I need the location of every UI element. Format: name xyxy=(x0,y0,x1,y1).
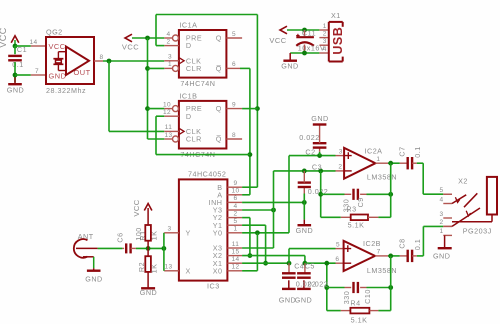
svg-text:1: 1 xyxy=(233,226,237,233)
svg-text:LM358N: LM358N xyxy=(367,266,397,275)
svg-text:C3: C3 xyxy=(312,162,322,171)
svg-text:7: 7 xyxy=(377,249,381,256)
svg-text:VCC: VCC xyxy=(122,43,139,52)
svg-text:Q: Q xyxy=(216,104,222,113)
svg-text:R4: R4 xyxy=(350,299,360,308)
svg-text:0.1: 0.1 xyxy=(12,60,24,69)
svg-text:2: 2 xyxy=(323,30,327,37)
svg-text:Q̅: Q̅ xyxy=(216,64,222,73)
svg-text:8: 8 xyxy=(232,132,236,139)
svg-text:6: 6 xyxy=(335,256,339,263)
svg-text:GND: GND xyxy=(433,252,450,261)
svg-text:X1: X1 xyxy=(331,11,341,20)
svg-text:GND: GND xyxy=(296,226,313,235)
svg-text:VCC: VCC xyxy=(269,36,286,45)
svg-text:1K: 1K xyxy=(149,264,158,274)
svg-text:5: 5 xyxy=(336,241,340,248)
svg-text:11: 11 xyxy=(232,241,240,248)
svg-text:VCC: VCC xyxy=(49,42,66,51)
svg-text:3: 3 xyxy=(167,226,171,233)
svg-text:2: 2 xyxy=(166,38,170,45)
svg-text:GND: GND xyxy=(49,71,67,80)
svg-text:D: D xyxy=(186,112,192,121)
svg-text:4: 4 xyxy=(233,203,237,210)
svg-text:4: 4 xyxy=(439,196,443,203)
svg-text:C2: C2 xyxy=(305,147,315,156)
svg-text:13: 13 xyxy=(164,264,172,271)
svg-text:15: 15 xyxy=(231,248,239,255)
svg-text:14: 14 xyxy=(231,256,239,263)
svg-text:Y: Y xyxy=(186,228,191,237)
svg-text:5: 5 xyxy=(232,31,236,38)
svg-text:2: 2 xyxy=(439,219,443,226)
svg-text:9: 9 xyxy=(232,101,236,108)
svg-text:12: 12 xyxy=(163,109,171,116)
svg-text:C7: C7 xyxy=(397,146,406,156)
svg-text:0.022: 0.022 xyxy=(299,133,320,142)
svg-text:12: 12 xyxy=(231,264,239,271)
svg-text:GND: GND xyxy=(85,274,102,283)
svg-text:10: 10 xyxy=(231,188,239,195)
svg-text:GND: GND xyxy=(279,296,296,305)
svg-text:74HC74N: 74HC74N xyxy=(180,79,215,88)
svg-text:LM358N: LM358N xyxy=(367,172,397,181)
svg-text:3: 3 xyxy=(339,148,343,155)
svg-text:IC2A: IC2A xyxy=(365,146,383,155)
svg-text:C5: C5 xyxy=(305,261,315,270)
svg-text:C4: C4 xyxy=(294,261,304,270)
svg-text:X0: X0 xyxy=(213,266,223,275)
svg-text:4: 4 xyxy=(166,31,170,38)
svg-text:5.1K: 5.1K xyxy=(348,221,365,230)
svg-text:4: 4 xyxy=(323,46,327,53)
svg-text:1: 1 xyxy=(323,23,327,30)
svg-text:CLR: CLR xyxy=(186,135,202,144)
svg-text:GND: GND xyxy=(295,296,312,305)
svg-text:5: 5 xyxy=(439,187,443,194)
svg-text:14: 14 xyxy=(29,39,37,46)
svg-text:Y0: Y0 xyxy=(213,228,223,237)
svg-text:IC3: IC3 xyxy=(207,282,220,291)
svg-text:9: 9 xyxy=(233,180,237,187)
svg-text:USB: USB xyxy=(331,27,345,55)
svg-text:R3: R3 xyxy=(346,204,356,213)
svg-text:VCC: VCC xyxy=(0,27,8,48)
svg-text:3: 3 xyxy=(323,38,327,45)
svg-text:GND: GND xyxy=(281,61,298,70)
svg-text:C10: C10 xyxy=(363,289,372,304)
svg-text:10: 10 xyxy=(163,101,171,108)
svg-text:74HC4052: 74HC4052 xyxy=(188,169,226,178)
svg-text:X: X xyxy=(186,266,191,275)
svg-text:0.1: 0.1 xyxy=(413,239,422,251)
svg-text:13: 13 xyxy=(164,132,172,139)
svg-text:2: 2 xyxy=(338,164,342,171)
svg-text:IC1A: IC1A xyxy=(179,21,197,30)
svg-text:C9: C9 xyxy=(356,197,365,207)
svg-text:0.022: 0.022 xyxy=(308,279,329,288)
svg-text:1: 1 xyxy=(376,156,380,163)
svg-text:VCC: VCC xyxy=(132,199,141,216)
svg-text:C11: C11 xyxy=(302,29,316,38)
svg-text:CLR: CLR xyxy=(186,64,202,73)
svg-text:QG2: QG2 xyxy=(46,28,63,37)
svg-text:28.322Mhz: 28.322Mhz xyxy=(46,86,86,95)
svg-text:IC2B: IC2B xyxy=(363,239,381,248)
svg-text:6: 6 xyxy=(233,195,237,202)
svg-text:Q̅: Q̅ xyxy=(216,135,222,144)
svg-text:GND: GND xyxy=(311,114,328,123)
svg-text:1: 1 xyxy=(439,228,443,235)
svg-text:R2: R2 xyxy=(137,262,146,272)
svg-text:IC1B: IC1B xyxy=(179,92,197,101)
svg-text:D: D xyxy=(186,41,192,50)
svg-text:2: 2 xyxy=(233,210,237,217)
svg-text:GND: GND xyxy=(7,85,24,94)
svg-text:1: 1 xyxy=(168,61,172,68)
svg-text:3: 3 xyxy=(168,54,172,61)
svg-text:5.1K: 5.1K xyxy=(351,315,368,324)
svg-text:0.1: 0.1 xyxy=(413,146,422,158)
svg-text:8: 8 xyxy=(99,54,103,61)
svg-text:X2: X2 xyxy=(458,176,468,185)
svg-text:GND: GND xyxy=(140,288,157,297)
svg-text:PG203J: PG203J xyxy=(463,226,492,235)
svg-text:C6: C6 xyxy=(115,232,124,242)
svg-text:7: 7 xyxy=(35,68,39,75)
svg-text:C8: C8 xyxy=(397,238,406,248)
svg-text:6: 6 xyxy=(232,61,236,68)
svg-text:5: 5 xyxy=(233,218,237,225)
svg-text:3: 3 xyxy=(439,211,443,218)
svg-text:Q: Q xyxy=(216,34,222,43)
svg-text:11: 11 xyxy=(165,124,173,131)
